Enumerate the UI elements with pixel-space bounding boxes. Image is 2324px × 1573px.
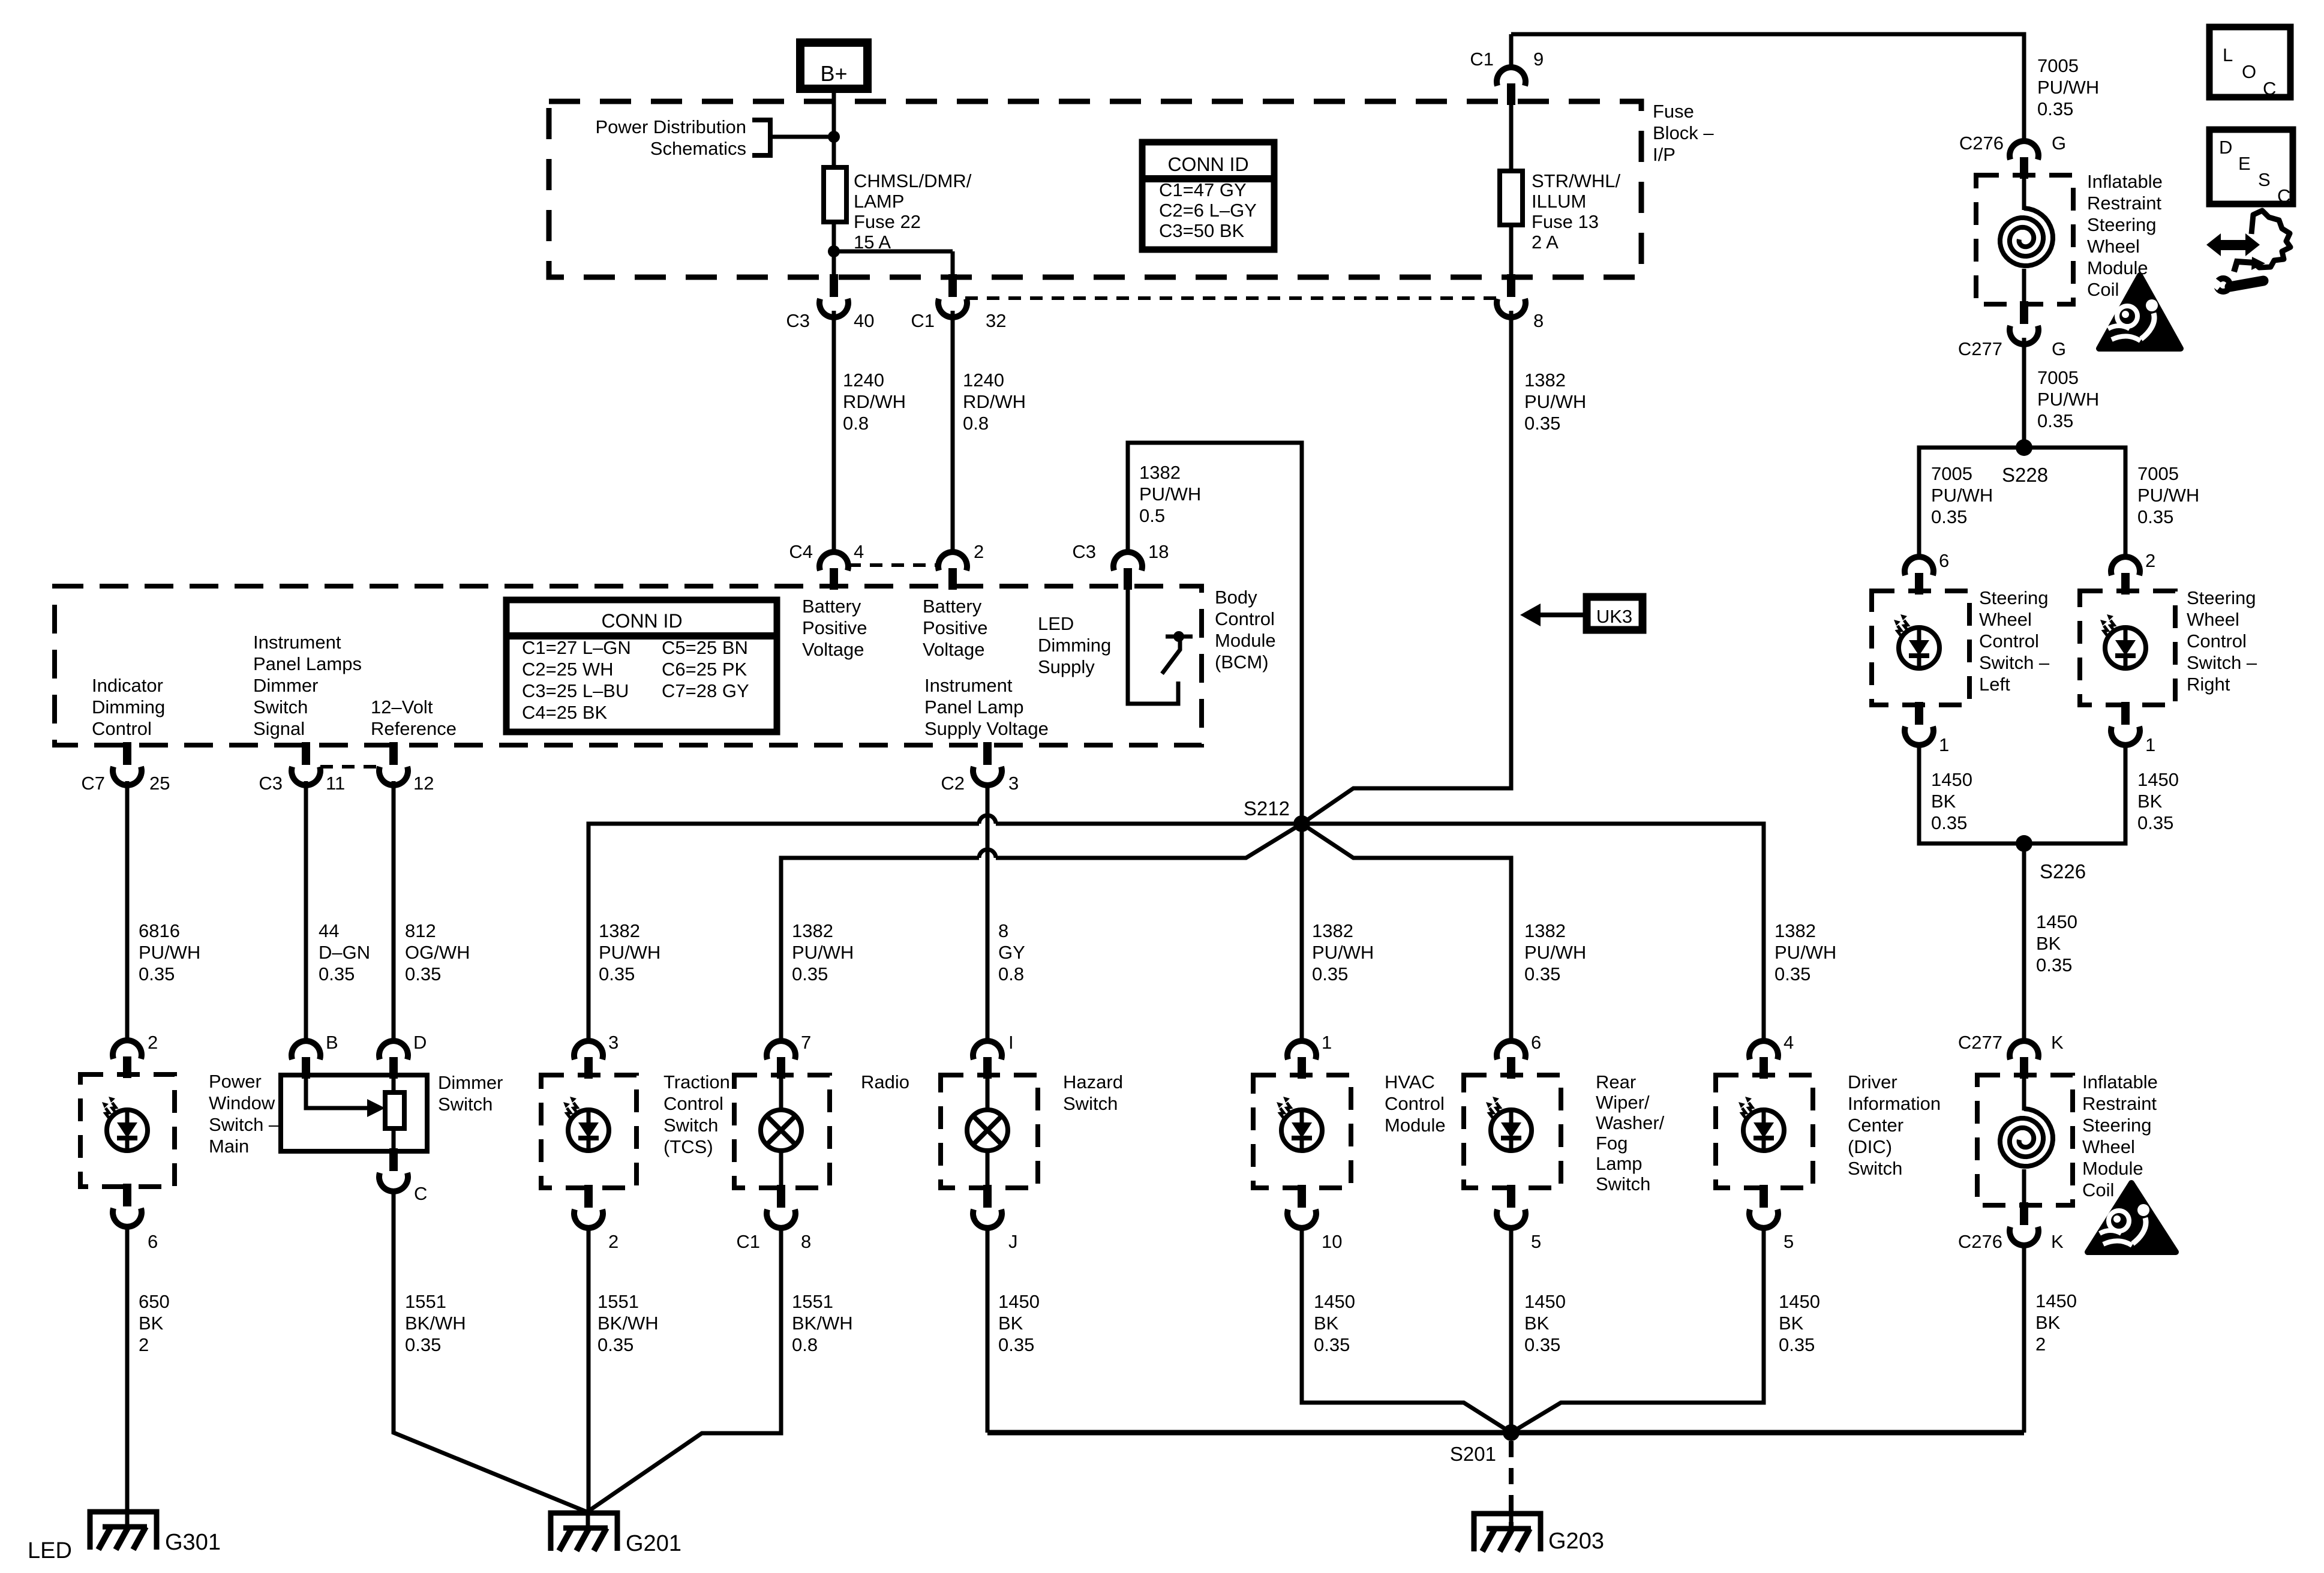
svg-text:0.35: 0.35 xyxy=(1314,1334,1350,1355)
svg-text:Steering: Steering xyxy=(2082,1115,2151,1136)
connector pin 4 (DIC) xyxy=(1749,1041,1778,1059)
rear wiper washer fog lamp switch box xyxy=(1464,1075,1561,1188)
traction control switch box xyxy=(541,1075,636,1188)
svg-text:Voltage: Voltage xyxy=(802,639,864,660)
svg-text:Wiper/: Wiper/ xyxy=(1596,1092,1650,1113)
svg-text:Window: Window xyxy=(209,1092,275,1113)
junction dot below fuse 22 xyxy=(828,245,840,257)
svg-text:ILLUM: ILLUM xyxy=(1532,191,1586,212)
LED steering right xyxy=(2105,628,2146,668)
svg-text:Battery: Battery xyxy=(802,596,861,617)
svg-text:0.35: 0.35 xyxy=(2137,812,2173,833)
svg-text:LED: LED xyxy=(1038,613,1074,634)
svg-text:Block –: Block – xyxy=(1653,122,1714,143)
UK3 option tag xyxy=(1587,597,1643,630)
svg-text:BK: BK xyxy=(2137,791,2163,812)
svg-text:4: 4 xyxy=(1783,1032,1794,1053)
splice S201 xyxy=(1503,1424,1520,1441)
svg-text:Restraint: Restraint xyxy=(2087,193,2161,214)
svg-text:1382: 1382 xyxy=(1139,462,1181,483)
svg-text:G: G xyxy=(2052,338,2066,359)
svg-text:Panel Lamp: Panel Lamp xyxy=(924,697,1023,718)
svg-text:Center: Center xyxy=(1848,1115,1903,1136)
svg-text:10: 10 xyxy=(1322,1231,1342,1252)
svg-text:C277: C277 xyxy=(1958,1032,2002,1053)
svg-text:Instrument: Instrument xyxy=(253,632,341,653)
connector C277 pin K xyxy=(2010,1041,2038,1059)
svg-text:1450: 1450 xyxy=(2036,911,2077,932)
svg-text:L: L xyxy=(2223,44,2233,65)
connector C2 pin 3 xyxy=(983,742,992,765)
svg-text:S212: S212 xyxy=(1244,797,1290,819)
svg-text:(DIC): (DIC) xyxy=(1848,1136,1892,1157)
svg-text:3: 3 xyxy=(1008,773,1019,794)
svg-text:7005: 7005 xyxy=(2137,463,2179,484)
svg-text:0.35: 0.35 xyxy=(2037,410,2073,431)
svg-text:C4: C4 xyxy=(789,541,813,562)
svg-text:C7: C7 xyxy=(81,773,105,794)
CONN ID table (fuse block) xyxy=(1142,142,1274,250)
svg-text:G301: G301 xyxy=(165,1530,221,1555)
svg-text:Switch: Switch xyxy=(663,1115,718,1136)
svg-text:1450: 1450 xyxy=(998,1291,1040,1312)
svg-text:CHMSL/DMR/: CHMSL/DMR/ xyxy=(854,170,972,191)
wire 1450 BK (HVAC to S201) xyxy=(1302,1225,1511,1433)
connector pin 2 (right switch) xyxy=(2111,557,2140,575)
svg-text:Dimmer: Dimmer xyxy=(438,1072,503,1093)
svg-text:0.35: 0.35 xyxy=(2137,506,2173,527)
connector pin 8 xyxy=(1507,274,1515,297)
wire 1382 PU/WH 0.35 (pin 8 down) xyxy=(1302,311,1511,824)
svg-text:K: K xyxy=(2051,1231,2064,1252)
svg-text:5: 5 xyxy=(1531,1231,1541,1252)
svg-text:Fuse 13: Fuse 13 xyxy=(1532,211,1599,232)
svg-text:8: 8 xyxy=(1533,310,1544,331)
connector pin 1 (right switch) xyxy=(2121,702,2130,725)
svg-text:C: C xyxy=(2263,78,2276,99)
svg-text:0.35: 0.35 xyxy=(1312,963,1348,984)
svg-text:5: 5 xyxy=(1783,1231,1794,1252)
svg-text:8: 8 xyxy=(998,920,1008,941)
svg-text:1551: 1551 xyxy=(405,1291,446,1312)
wire 1240 RD/WH left (C3-40 to C4-4) xyxy=(832,311,836,553)
svg-text:B: B xyxy=(326,1032,338,1053)
wire 1450 BK (DIC to S201) xyxy=(1511,1225,1764,1433)
svg-text:Power: Power xyxy=(209,1071,262,1092)
svg-text:Right: Right xyxy=(2187,674,2230,695)
LED traction control xyxy=(568,1110,609,1151)
wire S226 to C277-K xyxy=(2022,843,2026,1041)
svg-text:BK: BK xyxy=(2036,933,2061,954)
svg-text:Positive: Positive xyxy=(802,617,867,638)
svg-text:Switch: Switch xyxy=(1596,1173,1650,1194)
svg-text:Wheel: Wheel xyxy=(2187,609,2239,630)
connector C7 pin 25 xyxy=(123,742,131,765)
wire S212 horizontal right (to DIC) xyxy=(1302,824,1764,1041)
wire 1382 PU/WH 0.5 loop xyxy=(1128,443,1302,824)
svg-text:3: 3 xyxy=(608,1032,618,1053)
svg-text:2: 2 xyxy=(148,1032,158,1053)
svg-text:Steering: Steering xyxy=(2187,587,2256,608)
hazard switch box xyxy=(941,1075,1038,1188)
power window switch main box xyxy=(80,1074,175,1187)
wire 1551 BK/WH (TCS to G201) xyxy=(587,1225,591,1512)
CONN ID table (BCM) xyxy=(506,600,777,732)
svg-text:1450: 1450 xyxy=(1779,1291,1820,1312)
svg-text:2: 2 xyxy=(2035,1334,2046,1355)
connector C3 pin 18 xyxy=(1113,552,1142,571)
wire 1551 BK/WH (radio to G201) xyxy=(589,1225,781,1511)
svg-text:Panel Lamps: Panel Lamps xyxy=(253,653,362,674)
svg-text:C1: C1 xyxy=(1470,49,1494,70)
svg-text:0.35: 0.35 xyxy=(1774,963,1810,984)
svg-text:1382: 1382 xyxy=(792,920,833,941)
connector C277 pin G xyxy=(2020,301,2028,324)
svg-text:0.35: 0.35 xyxy=(1524,413,1560,434)
svg-text:7005: 7005 xyxy=(2037,367,2079,388)
svg-text:Fuse: Fuse xyxy=(1653,101,1694,122)
svg-text:LED: LED xyxy=(28,1538,72,1563)
svg-text:S: S xyxy=(2258,169,2271,190)
svg-text:0.35: 0.35 xyxy=(1931,812,1967,833)
svg-text:K: K xyxy=(2051,1032,2064,1053)
splice S212 xyxy=(1293,815,1310,832)
svg-text:PU/WH: PU/WH xyxy=(1774,942,1836,963)
svg-text:1551: 1551 xyxy=(597,1291,639,1312)
svg-text:Washer/: Washer/ xyxy=(1596,1112,1665,1133)
svg-text:32: 32 xyxy=(986,310,1006,331)
wire C277-G to S228 xyxy=(2022,338,2026,448)
wire S212 down (to HVAC) xyxy=(1300,824,1304,1041)
svg-text:Control: Control xyxy=(92,718,152,739)
svg-text:Fog: Fog xyxy=(1596,1133,1628,1154)
svg-text:O: O xyxy=(2242,61,2256,82)
svg-text:1382: 1382 xyxy=(1312,920,1353,941)
svg-text:S201: S201 xyxy=(1450,1443,1496,1465)
svg-text:Switch: Switch xyxy=(1848,1158,1902,1179)
svg-text:6816: 6816 xyxy=(139,920,180,941)
wire fuse13 to pin 8 xyxy=(1509,225,1514,277)
power symbol B+ box xyxy=(800,43,867,89)
wire S212 lower-left branch (to Radio) xyxy=(996,824,1302,858)
svg-text:Inflatable: Inflatable xyxy=(2087,171,2163,192)
connector C1 pin 8 (radio) xyxy=(777,1185,785,1208)
wire stub to C1-9 xyxy=(1509,34,1514,69)
svg-text:B+: B+ xyxy=(820,61,847,86)
svg-text:Switch –: Switch – xyxy=(1979,652,2050,673)
svg-text:7005: 7005 xyxy=(1931,463,1972,484)
svg-text:Steering: Steering xyxy=(2087,214,2156,235)
svg-text:0.5: 0.5 xyxy=(1139,505,1165,526)
wire C1-9 to coil (7005 PU/WH) xyxy=(1511,34,2024,142)
svg-text:C3: C3 xyxy=(1072,541,1096,562)
lamp radio xyxy=(761,1110,801,1151)
steering wheel control switch left box xyxy=(1872,591,1969,705)
svg-text:Module: Module xyxy=(1215,630,1276,651)
connector pin 2 (power window) xyxy=(113,1040,142,1059)
wire S228 branches xyxy=(1919,448,2125,557)
ground G301 xyxy=(90,1512,157,1550)
svg-text:Lamp: Lamp xyxy=(1596,1153,1643,1174)
dimmer switch box xyxy=(281,1075,427,1151)
wire C1-9 down to fuse 13 xyxy=(1509,104,1514,171)
splice S226 xyxy=(2016,835,2032,852)
svg-text:BK: BK xyxy=(139,1313,164,1334)
svg-text:PU/WH: PU/WH xyxy=(139,942,200,963)
svg-text:C2=25 WH: C2=25 WH xyxy=(522,659,613,680)
svg-text:Power Distribution: Power Distribution xyxy=(595,116,746,137)
svg-text:1382: 1382 xyxy=(1524,370,1566,391)
LED DIC xyxy=(1743,1110,1784,1151)
connector pin 5 (rear wiper) xyxy=(1507,1185,1515,1208)
svg-text:0.35: 0.35 xyxy=(405,963,441,984)
svg-text:PU/WH: PU/WH xyxy=(2137,485,2199,506)
steering wheel control switch right box xyxy=(2080,591,2175,705)
connector pin 6 (power window) xyxy=(123,1184,131,1206)
svg-text:C276: C276 xyxy=(1959,133,2004,154)
body control module (BCM) dashed box xyxy=(55,586,1202,745)
svg-text:Switch: Switch xyxy=(438,1094,493,1115)
svg-text:BK: BK xyxy=(1931,791,1956,812)
svg-text:Switch: Switch xyxy=(1063,1093,1118,1114)
svg-text:S228: S228 xyxy=(2002,464,2048,486)
svg-text:C6=25 PK: C6=25 PK xyxy=(662,659,747,680)
svg-text:RD/WH: RD/WH xyxy=(963,391,1026,412)
svg-text:40: 40 xyxy=(854,310,874,331)
svg-text:STR/WHL/: STR/WHL/ xyxy=(1532,170,1621,191)
connector pin 1 (HVAC) xyxy=(1287,1041,1316,1059)
svg-text:BK: BK xyxy=(998,1313,1023,1334)
svg-text:C276: C276 xyxy=(1958,1231,2002,1252)
svg-text:812: 812 xyxy=(405,920,436,941)
svg-text:J: J xyxy=(1008,1231,1018,1252)
driver information center switch box xyxy=(1716,1075,1813,1188)
svg-text:Positive: Positive xyxy=(923,617,988,638)
svg-text:0.35: 0.35 xyxy=(1524,963,1560,984)
connector pin 3 (TCS) xyxy=(574,1041,603,1059)
svg-text:PU/WH: PU/WH xyxy=(1524,391,1586,412)
fuse block I/P dashed box xyxy=(549,101,1641,277)
svg-text:Restraint: Restraint xyxy=(2082,1093,2157,1114)
svg-text:Coil: Coil xyxy=(2087,279,2119,300)
wire fuse22 to connectors xyxy=(832,222,836,277)
connector C276 pin G xyxy=(2010,141,2038,160)
svg-text:0.35: 0.35 xyxy=(998,1334,1034,1355)
HVAC control module box xyxy=(1253,1075,1351,1188)
wire ground bus (1450 BK 2) xyxy=(987,1430,2024,1436)
svg-text:Control: Control xyxy=(2187,631,2247,652)
wire S212 horizontal left (to TCS) xyxy=(996,822,1302,826)
connector C1 pin 32 xyxy=(948,274,957,297)
svg-text:0.35: 0.35 xyxy=(1524,1334,1560,1355)
svg-text:6: 6 xyxy=(148,1231,158,1252)
svg-text:BK/WH: BK/WH xyxy=(405,1313,466,1334)
svg-text:2: 2 xyxy=(608,1231,618,1252)
wire 812 OG/WH (pin 12 down) xyxy=(392,781,396,1041)
svg-text:S226: S226 xyxy=(2040,860,2086,882)
svg-text:Battery: Battery xyxy=(923,596,982,617)
svg-text:Control: Control xyxy=(663,1093,723,1114)
svg-text:1: 1 xyxy=(2145,734,2155,755)
LED steering left xyxy=(1899,628,1939,668)
svg-text:(BCM): (BCM) xyxy=(1215,652,1269,673)
svg-text:7005: 7005 xyxy=(2037,55,2079,76)
connector C3 pin 11 xyxy=(302,742,310,765)
svg-text:1382: 1382 xyxy=(599,920,640,941)
svg-text:BK: BK xyxy=(2035,1312,2061,1333)
svg-text:UK3: UK3 xyxy=(1596,606,1632,627)
svg-text:Hazard: Hazard xyxy=(1063,1071,1123,1092)
svg-text:BK: BK xyxy=(1779,1313,1804,1334)
svg-text:Switch –: Switch – xyxy=(2187,652,2257,673)
svg-text:PU/WH: PU/WH xyxy=(1139,484,1201,505)
svg-text:C4=25 BK: C4=25 BK xyxy=(522,702,608,723)
svg-text:2: 2 xyxy=(2145,550,2155,571)
svg-text:0.8: 0.8 xyxy=(998,963,1024,984)
svg-text:0.35: 0.35 xyxy=(597,1334,633,1355)
svg-text:Dimming: Dimming xyxy=(92,697,165,718)
svg-text:C2=6 L–GY: C2=6 L–GY xyxy=(1159,200,1257,221)
svg-text:Wheel: Wheel xyxy=(1979,609,2032,630)
svg-text:2: 2 xyxy=(139,1334,149,1355)
svg-text:6: 6 xyxy=(1531,1032,1541,1053)
svg-text:D–GN: D–GN xyxy=(319,942,370,963)
wire 650 BK (to G301) xyxy=(125,1224,130,1512)
LED HVAC xyxy=(1281,1110,1322,1151)
connector pin 6 (rear wiper) xyxy=(1497,1041,1526,1059)
svg-text:Steering: Steering xyxy=(1979,587,2048,608)
connector pin 6 (left switch) xyxy=(1905,557,1933,575)
svg-text:0.8: 0.8 xyxy=(963,413,989,434)
dimmer switch potentiometer xyxy=(385,1092,404,1128)
svg-text:PU/WH: PU/WH xyxy=(1931,485,1993,506)
wire 1551 BK/WH (dimmer C to G201) xyxy=(394,1188,587,1512)
fuse F13 STR/WHL/ILLUM xyxy=(1500,171,1523,225)
splice S228 xyxy=(2016,439,2032,456)
svg-text:Dimming: Dimming xyxy=(1038,635,1111,656)
svg-text:PU/WH: PU/WH xyxy=(2037,389,2099,410)
svg-text:12: 12 xyxy=(413,773,434,794)
svg-text:Main: Main xyxy=(209,1136,249,1157)
svg-text:0.35: 0.35 xyxy=(139,963,175,984)
LOC reference box xyxy=(2209,27,2290,97)
svg-text:CONN ID: CONN ID xyxy=(601,610,682,632)
wire 1450 BK (hazard to ground bus) xyxy=(986,1225,990,1433)
connector C3 pin 40 xyxy=(830,274,838,297)
svg-text:PU/WH: PU/WH xyxy=(1312,942,1374,963)
svg-text:Switch: Switch xyxy=(253,697,308,718)
svg-text:0.35: 0.35 xyxy=(405,1334,441,1355)
svg-text:BK: BK xyxy=(1524,1313,1550,1334)
svg-text:Module: Module xyxy=(2082,1158,2143,1179)
svg-text:PU/WH: PU/WH xyxy=(792,942,854,963)
svg-text:D: D xyxy=(2219,137,2232,158)
dimmer switch wiper arrow xyxy=(306,1079,368,1108)
svg-text:C1=47 GY: C1=47 GY xyxy=(1159,179,1247,200)
svg-text:C7=28 GY: C7=28 GY xyxy=(662,680,749,701)
connector pin D (dimmer) xyxy=(379,1041,408,1059)
connector pin 12 xyxy=(389,742,398,765)
svg-text:Schematics: Schematics xyxy=(650,138,746,159)
wire switches to S226 xyxy=(1919,742,2125,843)
svg-text:C3=25 L–BU: C3=25 L–BU xyxy=(522,680,629,701)
svg-text:1240: 1240 xyxy=(963,370,1004,391)
connector face line C1 xyxy=(965,296,1497,300)
svg-text:44: 44 xyxy=(319,920,339,941)
wire 44 D-GN (C3-11 down) xyxy=(304,781,308,1041)
svg-text:0.8: 0.8 xyxy=(792,1334,818,1355)
connector pin 1 (left switch) xyxy=(1915,702,1923,725)
connector C276 pin K xyxy=(2020,1202,2028,1225)
svg-text:0.35: 0.35 xyxy=(2037,98,2073,119)
svg-text:LAMP: LAMP xyxy=(854,191,904,212)
svg-text:Instrument: Instrument xyxy=(924,675,1013,696)
hop over hazard wire (lower) xyxy=(979,849,996,858)
svg-text:C2: C2 xyxy=(941,773,965,794)
svg-text:0.35: 0.35 xyxy=(319,963,355,984)
svg-text:18: 18 xyxy=(1148,541,1169,562)
svg-text:CONN ID: CONN ID xyxy=(1167,154,1248,175)
svg-text:Driver: Driver xyxy=(1848,1071,1897,1092)
svg-text:650: 650 xyxy=(139,1291,170,1312)
connector pin C (dimmer) xyxy=(389,1148,398,1171)
svg-text:HVAC: HVAC xyxy=(1385,1071,1435,1092)
svg-text:C1: C1 xyxy=(736,1231,760,1252)
svg-text:C3: C3 xyxy=(786,310,810,331)
svg-text:Dimmer: Dimmer xyxy=(253,675,319,696)
svg-text:1450: 1450 xyxy=(1931,769,1972,790)
svg-text:25: 25 xyxy=(149,773,170,794)
svg-text:C: C xyxy=(2277,185,2290,206)
svg-text:Traction: Traction xyxy=(663,1071,730,1092)
LED rear wiper xyxy=(1491,1110,1532,1151)
connector pin 2 (BCM) xyxy=(938,552,967,571)
svg-text:1450: 1450 xyxy=(2137,769,2179,790)
svg-text:I/P: I/P xyxy=(1653,144,1676,165)
svg-text:G: G xyxy=(2052,133,2066,154)
connector pin 10 (HVAC) xyxy=(1298,1185,1306,1208)
svg-text:1450: 1450 xyxy=(1314,1291,1355,1312)
svg-text:2: 2 xyxy=(974,541,984,562)
svg-text:1: 1 xyxy=(1939,734,1949,755)
svg-text:BK/WH: BK/WH xyxy=(597,1313,659,1334)
svg-text:Voltage: Voltage xyxy=(923,639,984,660)
svg-text:BK: BK xyxy=(1314,1313,1339,1334)
svg-text:12–Volt: 12–Volt xyxy=(371,697,433,718)
svg-text:0.35: 0.35 xyxy=(792,963,828,984)
svg-text:0.35: 0.35 xyxy=(1931,506,1967,527)
airbag warning triangle (bottom) xyxy=(2088,1183,2176,1252)
svg-text:6: 6 xyxy=(1939,550,1949,571)
ground G203 xyxy=(1474,1514,1541,1551)
wire 6816 PU/WH (C7-25 down) xyxy=(125,781,130,1041)
svg-text:C1: C1 xyxy=(911,310,935,331)
svg-text:Left: Left xyxy=(1979,674,2010,695)
svg-text:G203: G203 xyxy=(1548,1529,1604,1554)
svg-text:C: C xyxy=(414,1183,427,1204)
connector pin I (hazard) xyxy=(973,1041,1002,1059)
coil winding (top) xyxy=(2022,178,2026,210)
svg-text:D: D xyxy=(413,1032,427,1053)
svg-text:Wheel: Wheel xyxy=(2082,1136,2135,1157)
svg-text:1: 1 xyxy=(1322,1032,1332,1053)
svg-text:Reference: Reference xyxy=(371,718,457,739)
connector pin 7 (radio) xyxy=(767,1041,795,1059)
svg-text:Information: Information xyxy=(1848,1093,1941,1114)
wire 1450 BK (rear wiper to S201) xyxy=(1509,1225,1514,1433)
svg-text:1551: 1551 xyxy=(792,1291,833,1312)
svg-text:1450: 1450 xyxy=(2035,1290,2077,1311)
